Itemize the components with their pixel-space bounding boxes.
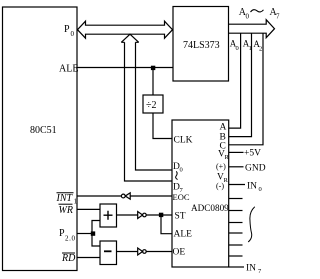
microcontroller U1 80C51 <box>3 7 78 271</box>
ellipsis squiggle between D0 and D7 <box>176 171 178 179</box>
wire A0 tap <box>229 33 241 128</box>
inverter triangle pointing left on EOC line <box>125 193 130 199</box>
svg-text:IN: IN <box>247 182 257 192</box>
wire GND to VR- <box>229 166 244 168</box>
inverter bubble on EOC line <box>121 194 125 198</box>
buffer bubble on ST line <box>143 213 147 217</box>
svg-text:0: 0 <box>246 13 250 21</box>
svg-text:0: 0 <box>71 30 75 38</box>
svg-text:2.0: 2.0 <box>65 235 76 243</box>
wire WR to G1 <box>77 208 101 210</box>
wire P2.0 <box>77 233 93 235</box>
svg-text:(+): (+) <box>216 162 226 171</box>
wire A2 tap <box>229 33 263 145</box>
wire IN7 <box>229 266 244 268</box>
svg-text:IN: IN <box>246 264 256 274</box>
pin stub IN1 <box>229 198 243 200</box>
svg-text:÷2: ÷2 <box>146 100 157 111</box>
junction dot ALE/divider <box>151 66 155 70</box>
pin stub IN3 <box>229 222 243 224</box>
buffer triangle on OE line <box>138 248 143 255</box>
wire D0 shaft <box>136 42 173 170</box>
buffer bubble on OE line <box>143 250 147 254</box>
svg-text:INT: INT <box>56 193 74 204</box>
svg-text:WR: WR <box>59 205 73 216</box>
wire RD to G2 <box>77 257 101 259</box>
svg-text:R: R <box>225 154 230 161</box>
svg-text:ALE: ALE <box>174 230 193 240</box>
latch U2 74LS373 <box>173 7 229 82</box>
bus arrow up from D0/D7 into P0 bus <box>121 34 138 42</box>
junction dot P2.0 <box>91 231 95 235</box>
wire G1 output to ST <box>117 214 173 216</box>
pin stub IN4 <box>229 232 243 234</box>
svg-text:0: 0 <box>259 186 262 193</box>
wire IN0 <box>229 184 245 186</box>
svg-text:ADC0809: ADC0809 <box>191 203 229 213</box>
svg-text:80C51: 80C51 <box>30 125 57 136</box>
OR gate G1 (+) <box>100 204 117 227</box>
wire ALE to 74LS373 G <box>77 67 173 69</box>
wire ST junction branch down to ADC ALE <box>161 215 172 234</box>
svg-text:74LS373: 74LS373 <box>183 40 220 51</box>
svg-text:OE: OE <box>173 248 186 258</box>
wire P2.0 branch down to G2 <box>92 234 100 247</box>
OR gate G2 (-) <box>100 241 117 265</box>
wire divider output to CLK <box>153 113 172 139</box>
pin stub IN5 <box>229 244 243 246</box>
symbol - inside G2 <box>104 250 112 252</box>
wire A1 tap <box>229 33 252 136</box>
bus P0 to 74LS373 (double-headed hollow arrow) <box>78 21 173 38</box>
buffer triangle on ST line <box>138 212 143 219</box>
wire D7 shaft <box>125 42 173 181</box>
junction dot ST/ALE <box>159 213 163 217</box>
svg-text:0: 0 <box>180 167 183 174</box>
wire +5V to VR+ <box>229 151 244 153</box>
ADC U3 ADC0809 <box>172 120 229 267</box>
wire ALE junction to divider input <box>152 68 154 96</box>
svg-text:(-): (-) <box>216 182 224 191</box>
svg-text:P: P <box>64 24 70 35</box>
svg-text:ST: ST <box>175 212 186 222</box>
svg-text:+5V: +5V <box>244 149 261 159</box>
ellipsis squiggle between IN inputs <box>248 207 255 242</box>
symbol + inside G1 <box>104 211 113 220</box>
pin stub IN6 <box>229 255 243 257</box>
svg-text:0: 0 <box>236 45 239 52</box>
svg-text:CLK: CLK <box>174 136 193 146</box>
svg-text:A: A <box>220 123 227 133</box>
svg-text:RD: RD <box>61 253 76 264</box>
wire EOC to INT1 <box>77 195 173 197</box>
svg-text:1: 1 <box>249 45 252 52</box>
svg-text:2: 2 <box>259 46 262 53</box>
svg-text:GND: GND <box>245 164 266 174</box>
bus A0~A7 out of 74LS373 (hollow arrow right) <box>229 20 275 38</box>
wire P2.0 branch up to G1 <box>92 221 100 234</box>
svg-text:R: R <box>224 177 229 184</box>
svg-text:7: 7 <box>276 13 280 21</box>
svg-text:EOC: EOC <box>173 192 190 202</box>
pin stub IN2 <box>229 210 243 212</box>
divider block /2 <box>143 95 163 113</box>
svg-text:ALE: ALE <box>59 64 78 75</box>
svg-text:1: 1 <box>74 198 78 206</box>
wire G2 output to OE <box>117 251 173 253</box>
